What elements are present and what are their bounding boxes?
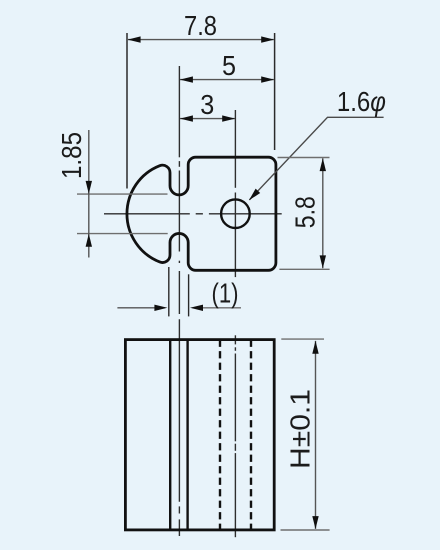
hidden line hole right <box>250 340 252 530</box>
part outline top view <box>127 157 276 270</box>
svg-text:1.85: 1.85 <box>56 132 87 179</box>
centerline slot vertical <box>178 66 180 536</box>
front view rectangle <box>125 340 274 530</box>
dim 7.8 line <box>128 39 274 41</box>
dim 3 line <box>180 118 235 120</box>
hole 1.6 dia <box>221 199 250 228</box>
dim 1.85 vertical line <box>88 130 90 258</box>
extension lines 5.8 <box>278 157 330 159</box>
extension lines (1) <box>168 267 170 316</box>
dim 5 line <box>180 79 274 81</box>
leader 1.6phi <box>249 117 383 200</box>
centerline hole vertical <box>234 110 236 537</box>
extension lines H <box>281 338 324 340</box>
dim H vertical line <box>315 341 317 529</box>
extension lines 1.85 <box>77 193 168 195</box>
svg-text:H±0.1: H±0.1 <box>285 389 316 469</box>
svg-text:5: 5 <box>222 50 236 81</box>
svg-text:(1): (1) <box>212 277 239 308</box>
centerline horizontal through part <box>104 213 282 215</box>
slot edge left front view <box>169 340 171 530</box>
dim (1) arrow right <box>193 307 242 309</box>
hidden line hole left <box>219 340 221 530</box>
svg-text:5.8: 5.8 <box>290 196 321 228</box>
svg-text:3: 3 <box>200 89 214 120</box>
svg-text:1.6φ: 1.6φ <box>337 86 386 117</box>
slot edge right front view <box>186 340 188 530</box>
extension line right edge <box>274 33 276 150</box>
dim (1) arrow left <box>117 307 164 309</box>
dim 5.8 vertical line <box>322 158 324 268</box>
extension line left 7.8 <box>126 33 128 189</box>
svg-text:7.8: 7.8 <box>184 10 217 41</box>
